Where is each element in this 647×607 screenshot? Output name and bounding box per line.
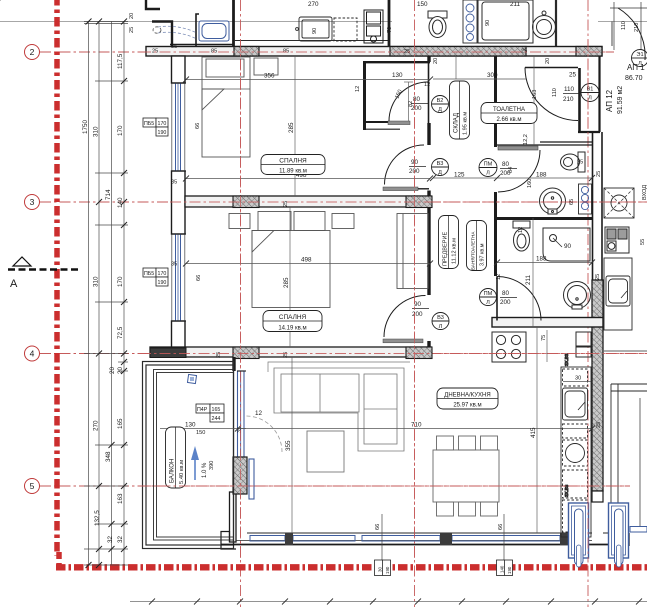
svg-text:В3: В3 — [437, 315, 444, 321]
axis 4 line — [40, 353, 647, 355]
svg-text:190: 190 — [507, 566, 512, 574]
svg-text:270: 270 — [93, 420, 100, 431]
balcony slope arrow — [191, 446, 215, 480]
red property boundary corner+bottom — [56, 552, 62, 565]
svg-text:714: 714 — [105, 189, 112, 200]
kitchen dims — [537, 327, 590, 533]
dashed door swing above tub — [153, 26, 197, 39]
svg-text:80: 80 — [502, 290, 510, 297]
svg-text:30: 30 — [575, 376, 581, 382]
washing machine column — [463, 0, 477, 43]
svg-text:355: 355 — [285, 440, 292, 451]
svg-text:125: 125 — [454, 172, 465, 179]
svg-text:11.12 кв.м: 11.12 кв.м — [452, 238, 458, 264]
svg-text:70: 70 — [387, 27, 393, 33]
fridge right top — [576, 332, 591, 357]
svg-text:11.89 кв.м: 11.89 кв.м — [279, 169, 307, 175]
svg-text:150: 150 — [196, 430, 205, 436]
svg-text:163: 163 — [532, 90, 538, 99]
svg-text:ПРЕДВЕРИЕ: ПРЕДВЕРИЕ — [443, 232, 449, 266]
ПБ5 window labels left — [143, 118, 168, 286]
toilet room toilet — [561, 152, 586, 172]
svg-text:Л: Л — [439, 324, 443, 330]
hatch col left divider — [233, 196, 259, 208]
svg-text:25: 25 — [283, 352, 289, 358]
stove 4 burners — [492, 332, 526, 362]
svg-text:ДНЕВНА/КУХНЯ: ДНЕВНА/КУХНЯ — [444, 393, 490, 399]
svg-text:2.66 кв.м: 2.66 кв.м — [497, 117, 522, 123]
bathroom toilet — [513, 221, 530, 251]
window sill ticks — [171, 83, 246, 371]
neighbor counter + sink — [604, 258, 632, 330]
svg-text:200: 200 — [500, 299, 511, 306]
toilet top — [428, 11, 447, 38]
svg-text:35: 35 — [171, 180, 177, 186]
coffee table — [307, 431, 344, 472]
svg-text:110: 110 — [621, 21, 627, 30]
svg-text:ПБ5: ПБ5 — [144, 121, 154, 127]
chain labels rotated — [82, 53, 124, 543]
svg-text:ВХОД: ВХОД — [642, 185, 647, 200]
svg-text:35: 35 — [171, 44, 177, 50]
corridor washbasin round — [540, 188, 566, 214]
wall bedroom1/bedroom2 divider y196-207 — [185, 196, 431, 207]
svg-text:12: 12 — [355, 86, 361, 92]
svg-text:30: 30 — [378, 567, 383, 572]
svg-text:163: 163 — [117, 493, 124, 504]
neighbor living room lines bottom right — [604, 351, 647, 530]
svg-text:1750: 1750 — [82, 119, 89, 134]
kitchen counter top strip — [234, 17, 388, 41]
hatch column balcony door — [233, 457, 247, 494]
svg-text:12: 12 — [255, 410, 263, 417]
svg-text:210: 210 — [634, 23, 640, 32]
svg-text:140: 140 — [500, 565, 505, 573]
svg-text:3: 3 — [30, 197, 35, 207]
svg-text:25: 25 — [129, 27, 135, 33]
bathtub — [199, 21, 229, 41]
svg-text:390: 390 — [209, 461, 215, 470]
bedroom windows sill marks / misc ticks — [183, 77, 595, 432]
svg-text:160: 160 — [527, 179, 533, 188]
svg-text:12: 12 — [518, 227, 524, 233]
right exterior wall hatched — [592, 280, 603, 491]
svg-text:П4Р: П4Р — [197, 407, 208, 413]
wardrobe right — [397, 214, 428, 289]
balcony/living west wall — [221, 357, 236, 549]
svg-text:1.95 кв.м: 1.95 кв.м — [463, 112, 469, 135]
room label bedroom1 — [261, 155, 325, 175]
balcony window label box — [196, 404, 224, 422]
bath/kitchen wall band y317-327 — [492, 318, 603, 328]
svg-text:БАЛКОН: БАЛКОН — [170, 459, 176, 483]
grid circle 2 — [25, 45, 40, 494]
svg-text:348: 348 — [105, 451, 112, 462]
svg-text:170: 170 — [117, 276, 124, 287]
svg-text:АП 1: АП 1 — [627, 63, 645, 72]
nightstand — [254, 58, 278, 75]
axis 5 line — [40, 485, 630, 487]
neighbor walls right of entry — [604, 56, 634, 188]
svg-text:12: 12 — [424, 82, 430, 88]
left dimension chains — [84, 21, 128, 565]
svg-text:25: 25 — [152, 49, 158, 55]
svg-text:188: 188 — [536, 256, 547, 263]
svg-text:20: 20 — [117, 366, 124, 374]
svg-text:4: 4 — [30, 349, 35, 359]
svg-text:В3: В3 — [437, 161, 444, 167]
svg-text:12,2: 12,2 — [523, 134, 529, 145]
room label bedroom2 — [263, 311, 322, 332]
svg-text:35: 35 — [237, 427, 243, 433]
svg-text:85: 85 — [283, 49, 289, 55]
slab line above — [0, 21, 392, 23]
svg-text:90: 90 — [564, 243, 572, 250]
svg-text:130: 130 — [185, 422, 196, 429]
svg-text:165: 165 — [117, 418, 124, 429]
svg-text:244: 244 — [212, 416, 221, 422]
svg-text:110: 110 — [564, 86, 575, 93]
bedroom1 interior dims — [186, 56, 430, 196]
svg-text:210: 210 — [563, 96, 574, 103]
svg-text:ПМ: ПМ — [484, 162, 493, 168]
svg-text:25: 25 — [596, 171, 602, 177]
svg-text:300: 300 — [487, 72, 498, 79]
svg-text:55: 55 — [640, 239, 646, 245]
svg-text:140: 140 — [117, 197, 124, 208]
axis 3 line — [40, 201, 647, 203]
svg-text:310: 310 — [93, 126, 100, 137]
door B3 bedroom1 — [383, 145, 429, 191]
door PM toilet — [498, 150, 540, 192]
balcony drain symbol — [187, 374, 196, 383]
svg-text:84: 84 — [508, 167, 514, 173]
top right dim ticks — [610, 2, 647, 50]
glazing segments — [250, 536, 560, 542]
stove / oven stack — [364, 10, 383, 43]
svg-text:66: 66 — [195, 123, 201, 129]
top interior dim verticals — [269, 0, 271, 46]
door PM bathroom — [497, 277, 541, 321]
svg-text:СПАЛНЯ: СПАЛНЯ — [279, 158, 307, 165]
right boundary wall upper — [598, 56, 600, 132]
svg-text:2: 2 — [30, 47, 35, 57]
bottom dimension ruler (cut off) — [130, 601, 647, 603]
svg-text:A: A — [10, 278, 18, 290]
svg-text:25.97 кв.м: 25.97 кв.м — [453, 403, 481, 409]
neighbor kitchen boxes — [605, 227, 629, 253]
svg-text:66: 66 — [498, 524, 504, 530]
svg-text:66: 66 — [375, 524, 381, 530]
svg-text:310: 310 — [93, 276, 100, 287]
svg-text:Л: Л — [588, 96, 592, 102]
svg-text:170: 170 — [117, 125, 124, 136]
svg-text:35: 35 — [171, 262, 177, 268]
svg-text:20: 20 — [109, 366, 116, 374]
svg-text:190: 190 — [385, 566, 390, 574]
door B3 bedroom2 — [383, 296, 426, 343]
svg-text:190: 190 — [158, 130, 167, 136]
svg-text:25: 25 — [216, 352, 222, 358]
chain tick marks — [0, 0, 3, 3]
svg-text:СПАЛНЯ: СПАЛНЯ — [279, 314, 307, 321]
bath room walls around tub — [196, 14, 199, 46]
svg-text:188: 188 — [536, 172, 547, 179]
svg-text:Л: Л — [486, 300, 490, 306]
red property boundary vertical — [54, 0, 60, 556]
svg-text:1.0 %: 1.0 % — [202, 462, 208, 478]
svg-text:90: 90 — [414, 301, 422, 308]
svg-text:25: 25 — [596, 422, 602, 428]
svg-text:32: 32 — [117, 535, 124, 543]
corridor wall x427-431 segments — [427, 56, 431, 347]
svg-text:211: 211 — [525, 274, 532, 285]
bathroom walls — [494, 218, 592, 327]
svg-text:270: 270 — [308, 1, 319, 8]
balcony door dashed swing — [247, 416, 283, 452]
section marker A — [8, 257, 78, 290]
svg-text:5.40 кв.м: 5.40 кв.м — [179, 460, 185, 484]
svg-text:190: 190 — [158, 280, 167, 286]
svg-text:ТОАЛЕТНА: ТОАЛЕТНА — [493, 107, 525, 113]
bathroom lower washbasin — [564, 282, 591, 310]
svg-text:20: 20 — [129, 13, 135, 19]
svg-text:75: 75 — [541, 335, 547, 341]
svg-text:ЗХ.ВЗ: ЗХ.ВЗ — [564, 353, 569, 366]
svg-text:82: 82 — [408, 101, 414, 107]
svg-text:25: 25 — [569, 72, 577, 79]
toilet room walls — [494, 56, 600, 218]
living dims — [238, 357, 592, 533]
svg-text:20: 20 — [433, 58, 439, 64]
left exterior wall segments — [172, 56, 186, 348]
axis vertical B — [240, 0, 242, 607]
svg-text:710: 710 — [411, 422, 422, 429]
bed 1 — [202, 57, 250, 157]
dining table — [433, 436, 499, 516]
entrance door B1 — [525, 68, 578, 121]
svg-text:498: 498 — [301, 257, 312, 264]
room label living — [437, 388, 498, 409]
bottom right vertical windows — [569, 503, 647, 567]
axis vertical C — [414, 0, 416, 607]
room label balcony — [166, 427, 186, 488]
washing machine corridor — [579, 184, 592, 214]
axis vertical D — [587, 0, 589, 607]
svg-text:415: 415 — [530, 427, 537, 438]
svg-text:Э1: Э1 — [636, 52, 643, 58]
svg-text:165: 165 — [212, 407, 221, 413]
left neighbor walls — [146, 0, 160, 9]
svg-text:72,5: 72,5 — [117, 326, 124, 339]
svg-text:66: 66 — [196, 275, 202, 281]
axis 2 line — [40, 51, 614, 53]
svg-text:25: 25 — [521, 49, 527, 55]
svg-text:Д: Д — [438, 107, 442, 113]
labels: sklad / toaletna / predverie / banya — [450, 81, 470, 139]
balcony dims — [160, 428, 246, 430]
right wall middle (double line) — [593, 132, 603, 280]
counter with sink top right — [478, 0, 556, 46]
svg-text:СКЛАД: СКЛАД — [454, 113, 460, 133]
svg-text:20: 20 — [545, 58, 551, 64]
svg-text:285: 285 — [283, 277, 290, 288]
svg-text:Л: Л — [486, 171, 490, 177]
svg-text:85: 85 — [211, 49, 217, 55]
wall at 388 — [388, 0, 391, 46]
red axis overlay on top — [140, 40, 647, 560]
balcony door window — [238, 371, 245, 457]
closet door dim line — [408, 82, 410, 121]
svg-text:3.97 кв.м: 3.97 кв.м — [480, 243, 486, 266]
bedroom2 dims — [186, 207, 430, 347]
svg-text:170: 170 — [158, 271, 167, 277]
sofa L — [274, 368, 404, 451]
small window boxes on red line — [375, 560, 513, 576]
svg-text:25: 25 — [577, 160, 583, 166]
svg-text:32: 32 — [107, 535, 114, 543]
svg-text:5: 5 — [30, 481, 35, 491]
corridor and bath dims — [433, 56, 592, 327]
window 1 bedroom1 (left wall) — [172, 83, 185, 171]
svg-text:150: 150 — [417, 1, 428, 8]
svg-text:200: 200 — [412, 311, 423, 318]
svg-text:86.70: 86.70 — [625, 75, 643, 82]
svg-text:В2: В2 — [437, 98, 444, 104]
closet (sklad) walls — [363, 61, 430, 130]
bathroom shower tray — [543, 228, 590, 261]
right top door arc AP1 — [612, 8, 645, 60]
svg-text:12: 12 — [496, 274, 502, 280]
door B2 sklad closet — [389, 82, 428, 121]
radiator blue living west — [249, 459, 254, 499]
door size labels — [409, 86, 580, 318]
svg-text:132,5: 132,5 — [94, 510, 101, 526]
svg-text:Д: Д — [438, 170, 442, 176]
svg-text:285: 285 — [288, 122, 295, 133]
svg-text:90: 90 — [485, 20, 491, 26]
window 2 bedroom2 (left wall) — [172, 234, 185, 321]
hatch col right divider — [406, 196, 432, 208]
svg-text:ПМ: ПМ — [484, 291, 493, 297]
svg-text:130: 130 — [392, 72, 403, 79]
svg-text:14.19 кв.м: 14.19 кв.м — [278, 326, 306, 332]
shaft with X — [604, 188, 634, 218]
svg-text:АП 12: АП 12 — [605, 89, 614, 112]
svg-text:90: 90 — [312, 28, 318, 34]
svg-text:170: 170 — [158, 121, 167, 127]
kitchen counter right — [561, 353, 591, 537]
svg-text:25: 25 — [595, 274, 601, 280]
svg-text:117,5: 117,5 — [117, 53, 124, 69]
svg-text:110: 110 — [552, 88, 558, 97]
svg-text:91.59 м2: 91.59 м2 — [617, 86, 624, 114]
svg-text:ПБ5: ПБ5 — [144, 271, 154, 277]
svg-text:211: 211 — [510, 1, 521, 8]
piers — [285, 533, 293, 545]
wall bedroom2/living divider y346-356 — [150, 347, 431, 357]
window leader labels bottom — [382, 514, 504, 560]
svg-text:БАНЯ/ТОАЛЕТНА: БАНЯ/ТОАЛЕТНА — [471, 231, 476, 270]
